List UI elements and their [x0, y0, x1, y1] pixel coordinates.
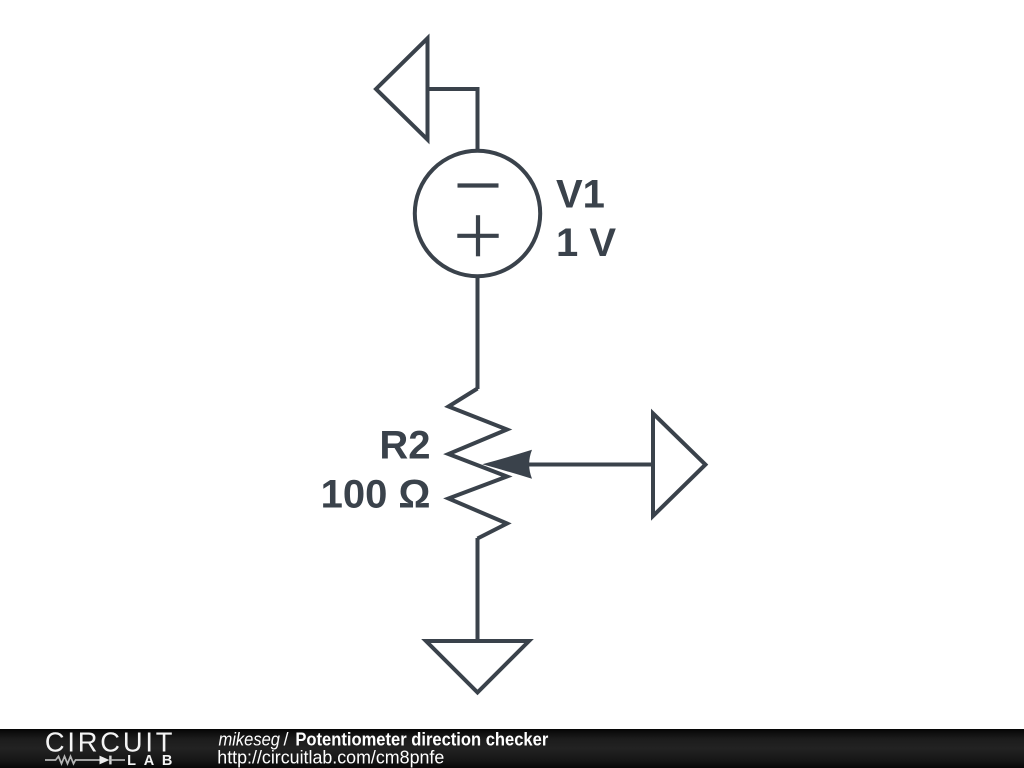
potentiometer R2 body — [449, 389, 508, 539]
wire V1 bottom to R2 top — [476, 275, 480, 389]
CircuitLab logo: CIRCUIT text — [45, 727, 173, 758]
svg-text:1 V: 1 V — [556, 221, 616, 265]
svg-text:R2: R2 — [379, 423, 430, 467]
wiper arrow of R2 — [482, 450, 653, 479]
CircuitLab logo: resistor-diode schematic — [45, 756, 125, 765]
ground — [426, 641, 529, 692]
footer url text — [217, 747, 444, 767]
footer title text — [219, 730, 549, 750]
footer bar — [0, 729, 1024, 768]
net flag (right, pointing right) — [653, 413, 705, 516]
label R2 100 Ω — [321, 423, 431, 516]
svg-text:LAB: LAB — [127, 753, 172, 768]
label V1 1 V — [556, 173, 616, 266]
svg-text:http://circuitlab.com/cm8pnfe: http://circuitlab.com/cm8pnfe — [217, 747, 444, 767]
wire R2 bottom to ground — [476, 538, 480, 642]
svg-text:V1: V1 — [556, 173, 605, 217]
svg-text:100 Ω: 100 Ω — [321, 472, 431, 516]
CircuitLab logo: LAB text — [127, 753, 172, 768]
net flag (top left, pointing left) — [376, 38, 428, 139]
voltage source V1 — [415, 151, 540, 276]
wire from top flag to V1 top — [428, 89, 478, 152]
